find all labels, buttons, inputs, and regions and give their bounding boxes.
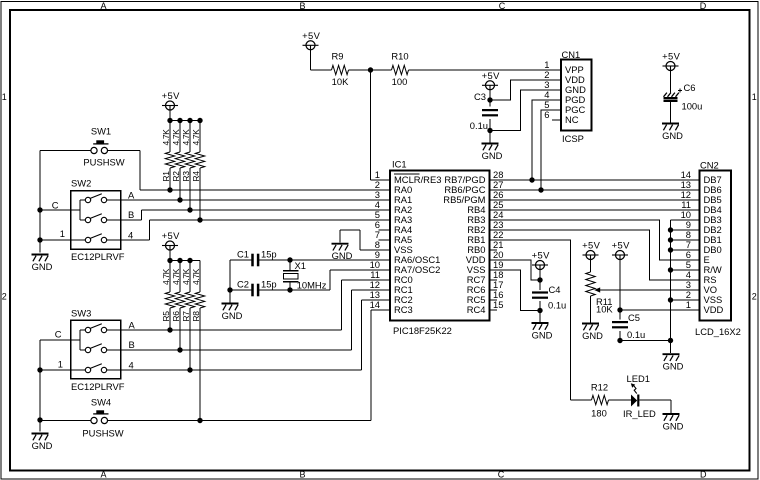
wire SW4 left to left rail bbox=[40, 420, 91, 422]
CN1 pin 4 PGD stub bbox=[550, 99, 561, 101]
wire R9 to R10 bbox=[349, 69, 392, 71]
svg-text:B: B bbox=[128, 209, 134, 220]
svg-text:R9: R9 bbox=[332, 51, 344, 62]
wire SW3 pin1 to left rail bbox=[40, 369, 71, 371]
svg-text:R4: R4 bbox=[191, 171, 201, 182]
svg-text:GND: GND bbox=[482, 150, 503, 161]
capacitor C3 0.1u bbox=[470, 91, 498, 131]
svg-text:15p: 15p bbox=[261, 279, 277, 290]
IC1 pin 8 VSS stub bbox=[379, 249, 391, 251]
wire RB7 row to CN2 DB7 bbox=[490, 179, 700, 181]
IC1 pin 22 RB1 stub bbox=[490, 239, 502, 241]
svg-text:4: 4 bbox=[128, 230, 133, 241]
svg-text:4.7K: 4.7K bbox=[181, 268, 191, 285]
svg-text:1: 1 bbox=[2, 92, 7, 102]
CN1 pin 6 NC stub bbox=[552, 119, 561, 121]
wire C2 left lead bbox=[230, 289, 252, 291]
switch SW1 PUSHSW bbox=[83, 126, 124, 168]
svg-text:0.1u: 0.1u bbox=[548, 300, 566, 311]
ground C6 bbox=[662, 124, 683, 141]
junction SW2 C at left rail bbox=[37, 207, 42, 212]
svg-text:180: 180 bbox=[591, 407, 607, 418]
junction bus R6 bbox=[177, 258, 182, 263]
wire SW3 C to left rail bbox=[40, 339, 71, 341]
wire node RA0 row bbox=[140, 189, 390, 191]
+5V supply for R1-R4 bbox=[162, 90, 180, 110]
svg-text:SW4: SW4 bbox=[91, 397, 111, 408]
junction bus R7 bbox=[187, 258, 192, 263]
wire R5-R8 top bus bbox=[170, 260, 200, 262]
svg-text:100: 100 bbox=[392, 76, 408, 87]
ground left rail upper bbox=[32, 255, 53, 272]
junction C4 ground node bbox=[537, 308, 542, 313]
junction bus R1 bbox=[167, 118, 172, 123]
junction R4 bottom on RA3 row bbox=[197, 217, 202, 222]
svg-text:GND: GND bbox=[663, 420, 684, 431]
CN2 pin 12 DB5 stub bbox=[689, 199, 700, 201]
svg-text:C1: C1 bbox=[237, 249, 249, 260]
wire C1 left lead bbox=[230, 259, 252, 261]
svg-text:2: 2 bbox=[2, 292, 7, 302]
IC IC1 PIC18F25K22 body bbox=[390, 171, 490, 321]
svg-text:GND: GND bbox=[663, 361, 684, 372]
junction LCD VDD node bbox=[617, 307, 622, 312]
IC1 pin 7 RA5 stub bbox=[379, 239, 391, 241]
wire node RA2 row bbox=[142, 209, 391, 211]
IC1 pin 20 VDD stub bbox=[490, 259, 502, 261]
IC1 pin 12 RC1 stub bbox=[379, 289, 391, 291]
wire R10 to CN1 VPP bbox=[409, 69, 551, 71]
junction VDD node C4 top bbox=[537, 277, 542, 282]
junction R2 bottom on RA1 row bbox=[177, 197, 182, 202]
junction R/W ground bbox=[668, 267, 673, 272]
wire R1-R4 top bus bbox=[170, 120, 200, 122]
svg-text:A: A bbox=[129, 320, 136, 331]
svg-text:+5V: +5V bbox=[582, 240, 600, 251]
svg-text:4.7K: 4.7K bbox=[191, 129, 201, 146]
junction R3 bottom on RA2 row bbox=[187, 207, 192, 212]
wire SW2 B jog to RA2 row bbox=[121, 219, 142, 221]
svg-text:4.7K: 4.7K bbox=[171, 129, 181, 146]
junction R5 bottom on A row bbox=[167, 327, 172, 332]
IC1 pin 16 RC5 stub bbox=[490, 299, 498, 301]
IC1 pin 4 RA2 stub bbox=[379, 209, 391, 211]
svg-text:RC4: RC4 bbox=[467, 304, 486, 315]
CN1 pin 2 VDD stub bbox=[550, 79, 561, 81]
wire VSS row bbox=[671, 299, 700, 301]
svg-text:4.7K: 4.7K bbox=[171, 268, 181, 285]
ground VSS pin8 bbox=[332, 244, 353, 261]
IC1 pin 18 RC7 stub bbox=[490, 279, 498, 281]
svg-text:GND: GND bbox=[222, 310, 243, 321]
wire +5V to C6 bbox=[670, 70, 672, 92]
IC1 pin 1 MCLR/RE3 stub bbox=[379, 179, 391, 181]
junction LCD VSS ground bbox=[668, 297, 673, 302]
svg-text:10K: 10K bbox=[596, 303, 613, 314]
svg-text:C3: C3 bbox=[474, 91, 486, 102]
svg-text:PUSHSW: PUSHSW bbox=[82, 428, 123, 439]
wire RB1 to R12 bbox=[490, 240, 571, 400]
junction C2 at ground rail bbox=[227, 287, 232, 292]
svg-text:15p: 15p bbox=[261, 249, 277, 260]
resistor R8 4.7K bbox=[191, 261, 205, 421]
svg-text:SW1: SW1 bbox=[91, 126, 111, 137]
+5V supply for C6 bbox=[662, 51, 680, 71]
wire C3 bottom to GND bbox=[489, 119, 491, 143]
wire CN1 PGD to RB7 bbox=[532, 100, 550, 180]
svg-text:15: 15 bbox=[493, 299, 503, 310]
junction PGC on RB6 row bbox=[538, 187, 543, 192]
svg-text:1: 1 bbox=[686, 299, 691, 310]
+5V supply for CN1/C3 bbox=[482, 70, 500, 90]
svg-text:1: 1 bbox=[60, 228, 65, 239]
IC1 pin 6 RA4 stub bbox=[379, 229, 391, 231]
switch SW4 PUSHSW bbox=[82, 397, 123, 439]
svg-text:RC3: RC3 bbox=[394, 304, 413, 315]
CN2 pin 6 E stub bbox=[689, 259, 700, 261]
svg-text:D: D bbox=[700, 1, 707, 11]
+5V supply for R9 bbox=[302, 30, 320, 50]
svg-text:C: C bbox=[499, 1, 506, 11]
wire C5 ground row bbox=[620, 340, 671, 342]
svg-text:R1: R1 bbox=[161, 171, 171, 182]
resistor R12 180 bbox=[591, 382, 609, 419]
SW2 push contact internal bbox=[71, 234, 121, 243]
svg-text:4: 4 bbox=[129, 360, 134, 371]
SW2 common bus internal bbox=[79, 200, 81, 220]
CN2 pin 13 DB6 stub bbox=[689, 189, 700, 191]
resistor R10 100 bbox=[391, 51, 408, 88]
resistor R1 4.7K bbox=[161, 121, 175, 191]
wire +5V down to C3 bbox=[489, 90, 491, 107]
svg-text:VDD: VDD bbox=[704, 304, 724, 315]
CN2 pin 1 VDD stub bbox=[689, 309, 700, 311]
svg-text:LCD_16X2: LCD_16X2 bbox=[695, 326, 741, 337]
switch SW2 EC12PLRVF body bbox=[71, 191, 121, 250]
wire C6 to GND bbox=[670, 102, 672, 123]
wire LCD ground rail vertical bbox=[670, 220, 672, 353]
svg-text:C: C bbox=[55, 329, 62, 340]
svg-text:1: 1 bbox=[752, 92, 757, 102]
wire SW2 A to RA1 row bbox=[121, 199, 391, 201]
junction R8 bottom on SW4 row bbox=[197, 418, 202, 423]
CN2 pin 14 DB7 stub bbox=[689, 179, 700, 181]
wire C2 to OSC2 jog bbox=[259, 289, 330, 291]
svg-text:GND: GND bbox=[532, 329, 553, 340]
svg-text:X1: X1 bbox=[295, 260, 306, 271]
CN1 pin 3 GND stub bbox=[550, 89, 561, 91]
IC1 pin 23 RB2 stub bbox=[490, 229, 502, 231]
CN2 pin 3 VO stub bbox=[689, 289, 700, 291]
svg-text:10K: 10K bbox=[332, 76, 349, 87]
CN2 pin 11 DB4 stub bbox=[689, 209, 700, 211]
svg-text:IC1: IC1 bbox=[392, 159, 407, 170]
wire SW1 left to GND rail bbox=[40, 150, 91, 152]
wire RB4 row to CN2 DB4 bbox=[490, 209, 700, 211]
junction CN1 VDD node bbox=[487, 97, 492, 102]
IC1 pin 15 RC4 stub bbox=[490, 309, 498, 311]
wire SW3 A row to RC0 jog bbox=[121, 329, 342, 331]
resistor R9 10K bbox=[332, 51, 350, 88]
ground C4 bbox=[532, 323, 553, 340]
junction R1 bottom on RA0 row bbox=[167, 187, 172, 192]
SW3 encoder contact B internal bbox=[80, 344, 121, 353]
IC1 pin 17 RC6 stub bbox=[490, 289, 498, 291]
ground R11 bbox=[582, 324, 603, 341]
wire +5V to R1-R4 bus bbox=[169, 110, 171, 121]
svg-text:R7: R7 bbox=[181, 311, 191, 322]
svg-text:+5V: +5V bbox=[162, 90, 180, 101]
IC1 pin 9 RA6/OSC1 stub bbox=[379, 259, 391, 261]
svg-text:4.7K: 4.7K bbox=[181, 129, 191, 146]
connector CN2 LCD_16X2 body bbox=[700, 171, 732, 321]
ground left rail lower bbox=[32, 434, 53, 451]
svg-text:4.7K: 4.7K bbox=[161, 129, 171, 146]
svg-text:B: B bbox=[299, 469, 305, 479]
ground crystal bbox=[222, 304, 243, 321]
SW2 encoder contact A internal bbox=[80, 194, 121, 203]
junction bus R2 bbox=[177, 118, 182, 123]
resistor R4 4.7K bbox=[191, 121, 205, 221]
IC1 pin 10 RA7/OSC2 stub bbox=[379, 269, 391, 271]
svg-text:R8: R8 bbox=[191, 311, 201, 322]
svg-text:10MHz: 10MHz bbox=[297, 279, 327, 290]
junction bus R4 bbox=[197, 118, 202, 123]
svg-text:+5V: +5V bbox=[482, 70, 500, 81]
junction DB0 ground bbox=[668, 247, 673, 252]
+5V supply for IC1/C4 bbox=[532, 250, 550, 270]
svg-text:A: A bbox=[100, 1, 106, 11]
IC1 MCLR overline bbox=[394, 173, 420, 175]
wire SW4 right to RC3 jog bbox=[108, 420, 372, 422]
junction R7 bottom on pin4 row bbox=[187, 367, 192, 372]
R11 wiper arrow to LCD VO bbox=[594, 287, 699, 292]
svg-text:0.1u: 0.1u bbox=[470, 120, 488, 131]
svg-text:IR_LED: IR_LED bbox=[623, 408, 656, 419]
wire +5V down to C4 bbox=[539, 269, 541, 290]
+5V supply for R5-R8 bbox=[162, 230, 180, 250]
wire LCD VDD row bbox=[620, 309, 700, 311]
wire C5 bottom bbox=[619, 331, 621, 341]
IC1 pin 24 RB3 stub bbox=[490, 219, 502, 221]
wire LED1 to GND bbox=[639, 399, 671, 401]
svg-text:A: A bbox=[128, 190, 135, 201]
IC1 pin 2 RA0 stub bbox=[379, 189, 391, 191]
potentiometer R11 10K bbox=[586, 259, 614, 322]
CN2 pin 5 R/W stub bbox=[689, 269, 700, 271]
wire OSC1 row pin9 bbox=[290, 259, 390, 261]
wire SW3 pin4 row to RC2 jog bbox=[121, 369, 362, 371]
svg-text:100u: 100u bbox=[682, 101, 703, 112]
wire VDD pin20 to +5V node bbox=[490, 260, 541, 280]
svg-text:CN1: CN1 bbox=[562, 49, 581, 60]
CN2 pin 2 VSS stub bbox=[689, 299, 700, 301]
svg-text:R5: R5 bbox=[161, 311, 171, 322]
IC1 pin 3 RA1 stub bbox=[379, 199, 391, 201]
junction PGD on RB7 row bbox=[529, 177, 534, 182]
IC1 pin 28 RB7/PGD stub bbox=[490, 179, 502, 181]
svg-text:+5V: +5V bbox=[162, 230, 180, 241]
ground LED1 bbox=[663, 414, 684, 431]
IC1 pin 25 RB4 stub bbox=[490, 209, 502, 211]
wire DB2 row bbox=[671, 229, 700, 231]
wire SW3 B row to RC1 jog bbox=[121, 349, 352, 351]
wire C4 bottom to GND bbox=[539, 301, 541, 322]
svg-text:+5V: +5V bbox=[302, 30, 320, 41]
svg-text:NC: NC bbox=[565, 114, 579, 125]
switch SW3 EC12PLRVF body bbox=[71, 320, 121, 379]
resistor R2 4.7K bbox=[171, 121, 185, 201]
svg-text:GND: GND bbox=[32, 440, 53, 451]
junction X1 bottom bbox=[287, 287, 292, 292]
svg-text:R2: R2 bbox=[171, 171, 181, 182]
wire +5V to R9 bbox=[310, 50, 312, 70]
junction C3 ground node bbox=[487, 128, 492, 133]
svg-text:+5V: +5V bbox=[612, 240, 630, 251]
wire DB0 row bbox=[671, 249, 700, 251]
svg-text:CN2: CN2 bbox=[700, 159, 719, 170]
wire R/W row bbox=[671, 269, 700, 271]
wire C1 C2 ground rail bbox=[229, 260, 231, 302]
junction C5 row at LCD ground rail bbox=[668, 338, 673, 343]
svg-text:4.7K: 4.7K bbox=[161, 268, 171, 285]
crystal X1 10MHz bbox=[283, 260, 327, 291]
wire RB3 to LCD E bbox=[490, 220, 700, 260]
SW3 push contact internal bbox=[71, 364, 121, 373]
svg-text:1: 1 bbox=[58, 359, 63, 370]
resistor R3 4.7K bbox=[181, 121, 195, 211]
svg-text:C: C bbox=[52, 199, 59, 210]
ground C3 bbox=[482, 144, 503, 161]
svg-text:14: 14 bbox=[370, 299, 380, 310]
wire C1 right lead bbox=[259, 259, 290, 261]
IC1 pin 14 RC3 stub bbox=[379, 309, 391, 311]
CN1 pin 5 PGC stub bbox=[550, 109, 561, 111]
CN2 pin 7 DB0 stub bbox=[689, 249, 700, 251]
svg-text:ICSP: ICSP bbox=[562, 133, 584, 144]
wire SW2 C to left rail bbox=[40, 209, 71, 211]
wire RB5 row to CN2 DB5 bbox=[490, 199, 700, 201]
CN1 pin 1 VPP stub bbox=[550, 69, 561, 71]
svg-text:A: A bbox=[100, 469, 106, 479]
capacitor C6 100u electrolytic bbox=[664, 82, 703, 111]
svg-text:R10: R10 bbox=[391, 51, 408, 62]
wire CN1 PGC to RB6 bbox=[541, 110, 550, 190]
wire VSS pin19 to ground node bbox=[490, 270, 541, 311]
wire +5V to R5-R8 bus bbox=[169, 250, 171, 261]
wire DB3 row to ground rail bbox=[671, 219, 700, 221]
svg-text:6: 6 bbox=[544, 109, 549, 120]
svg-text:B: B bbox=[299, 1, 305, 11]
junction bus R5 bbox=[167, 258, 172, 263]
wire RB2 to LCD RS bbox=[490, 230, 700, 280]
IC1 pin 13 RC2 stub bbox=[379, 299, 391, 301]
CN2 pin 8 DB1 stub bbox=[689, 239, 700, 241]
svg-text:SW2: SW2 bbox=[71, 178, 91, 189]
svg-text:LED1: LED1 bbox=[627, 373, 650, 384]
wire SW2 pin1 to left rail bbox=[40, 239, 71, 241]
CN2 pin 10 DB3 stub bbox=[689, 219, 700, 221]
svg-text:C2: C2 bbox=[237, 279, 249, 290]
IC1 pin 5 RA3 stub bbox=[379, 219, 391, 221]
SW3 encoder contact A internal bbox=[80, 324, 121, 333]
junction MCLR node bbox=[368, 67, 373, 72]
+5V supply for LCD/C5 bbox=[612, 240, 630, 260]
svg-text:D: D bbox=[700, 469, 707, 479]
capacitor C5 0.1u bbox=[612, 312, 645, 340]
junction bus R3 bbox=[187, 118, 192, 123]
IC1 pin 26 RB5/PGM stub bbox=[490, 199, 502, 201]
svg-text:GND: GND bbox=[662, 130, 683, 141]
svg-text:C6: C6 bbox=[684, 82, 696, 93]
junction X1 top bbox=[287, 257, 292, 262]
svg-text:EC12PLRVF: EC12PLRVF bbox=[71, 251, 125, 262]
svg-text:+5V: +5V bbox=[662, 51, 680, 62]
CN2 pin 4 RS stub bbox=[689, 279, 700, 281]
capacitor C4 0.1u bbox=[532, 284, 566, 311]
wire VSS pin8 to GND bbox=[360, 249, 379, 251]
ground LCD rail bbox=[663, 354, 684, 371]
svg-text:GND: GND bbox=[582, 330, 603, 341]
junction C5 ground corner bbox=[617, 338, 622, 343]
wire RB6 row to CN2 DB6 bbox=[490, 189, 700, 191]
CN2 pin 9 DB2 stub bbox=[689, 229, 700, 231]
wire SW1 right to RA0 row bbox=[108, 150, 141, 152]
svg-text:0.1u: 0.1u bbox=[627, 329, 645, 340]
junction DB2 ground bbox=[668, 227, 673, 232]
wire left rail SW1-GND vertical bbox=[39, 151, 41, 253]
wire CN1 GND pin3 bbox=[490, 90, 550, 131]
svg-text:C: C bbox=[498, 469, 505, 479]
junction DB1 ground bbox=[668, 237, 673, 242]
wire node RA3 row bbox=[150, 219, 391, 221]
svg-text:R12: R12 bbox=[591, 382, 608, 393]
+5V supply for R11 bbox=[582, 240, 600, 260]
svg-text:SW3: SW3 bbox=[71, 307, 91, 318]
resistor R6 4.7K bbox=[171, 261, 185, 351]
svg-text:C5: C5 bbox=[628, 312, 640, 323]
svg-text:PUSHSW: PUSHSW bbox=[83, 157, 124, 168]
wire RB1 drop to R12 bbox=[571, 399, 592, 401]
junction SW4 at left rail bbox=[37, 417, 42, 422]
svg-text:GND: GND bbox=[332, 250, 353, 261]
junction R6 bottom on B row bbox=[177, 347, 182, 352]
svg-text:+5V: +5V bbox=[532, 250, 550, 261]
IC1 pin 11 RC0 stub bbox=[379, 279, 391, 281]
wire MCLR vertical to pin1 bbox=[370, 70, 372, 180]
junction SW3 pin1 at left rail bbox=[37, 367, 42, 372]
svg-text:EC12PLRVF: EC12PLRVF bbox=[71, 381, 125, 392]
svg-text:PIC18F25K22: PIC18F25K22 bbox=[393, 325, 452, 336]
wire CN1 VDD to +5V node bbox=[490, 80, 550, 100]
capacitor C2 15p bbox=[237, 279, 277, 297]
svg-text:B: B bbox=[129, 339, 135, 350]
IC1 pin 27 RB6/PGC stub bbox=[490, 189, 502, 191]
svg-text:R3: R3 bbox=[181, 171, 191, 182]
junction SW2 pin1 at left rail bbox=[37, 237, 42, 242]
svg-text:GND: GND bbox=[32, 261, 53, 272]
resistor R5 4.7K bbox=[161, 261, 175, 331]
SW2 encoder contact B internal bbox=[80, 214, 121, 223]
IC1 pin 21 RB0 stub bbox=[490, 249, 498, 251]
wire DB1 row bbox=[671, 239, 700, 241]
LED LED1 IR_LED bbox=[623, 373, 656, 419]
wire R12 to LED1 bbox=[609, 399, 632, 401]
resistor R7 4.7K bbox=[181, 261, 195, 371]
SW3 common bus internal bbox=[79, 330, 81, 350]
wire left rail SW3-GND vertical bbox=[39, 340, 41, 432]
connector CN1 ICSP body bbox=[561, 60, 592, 131]
